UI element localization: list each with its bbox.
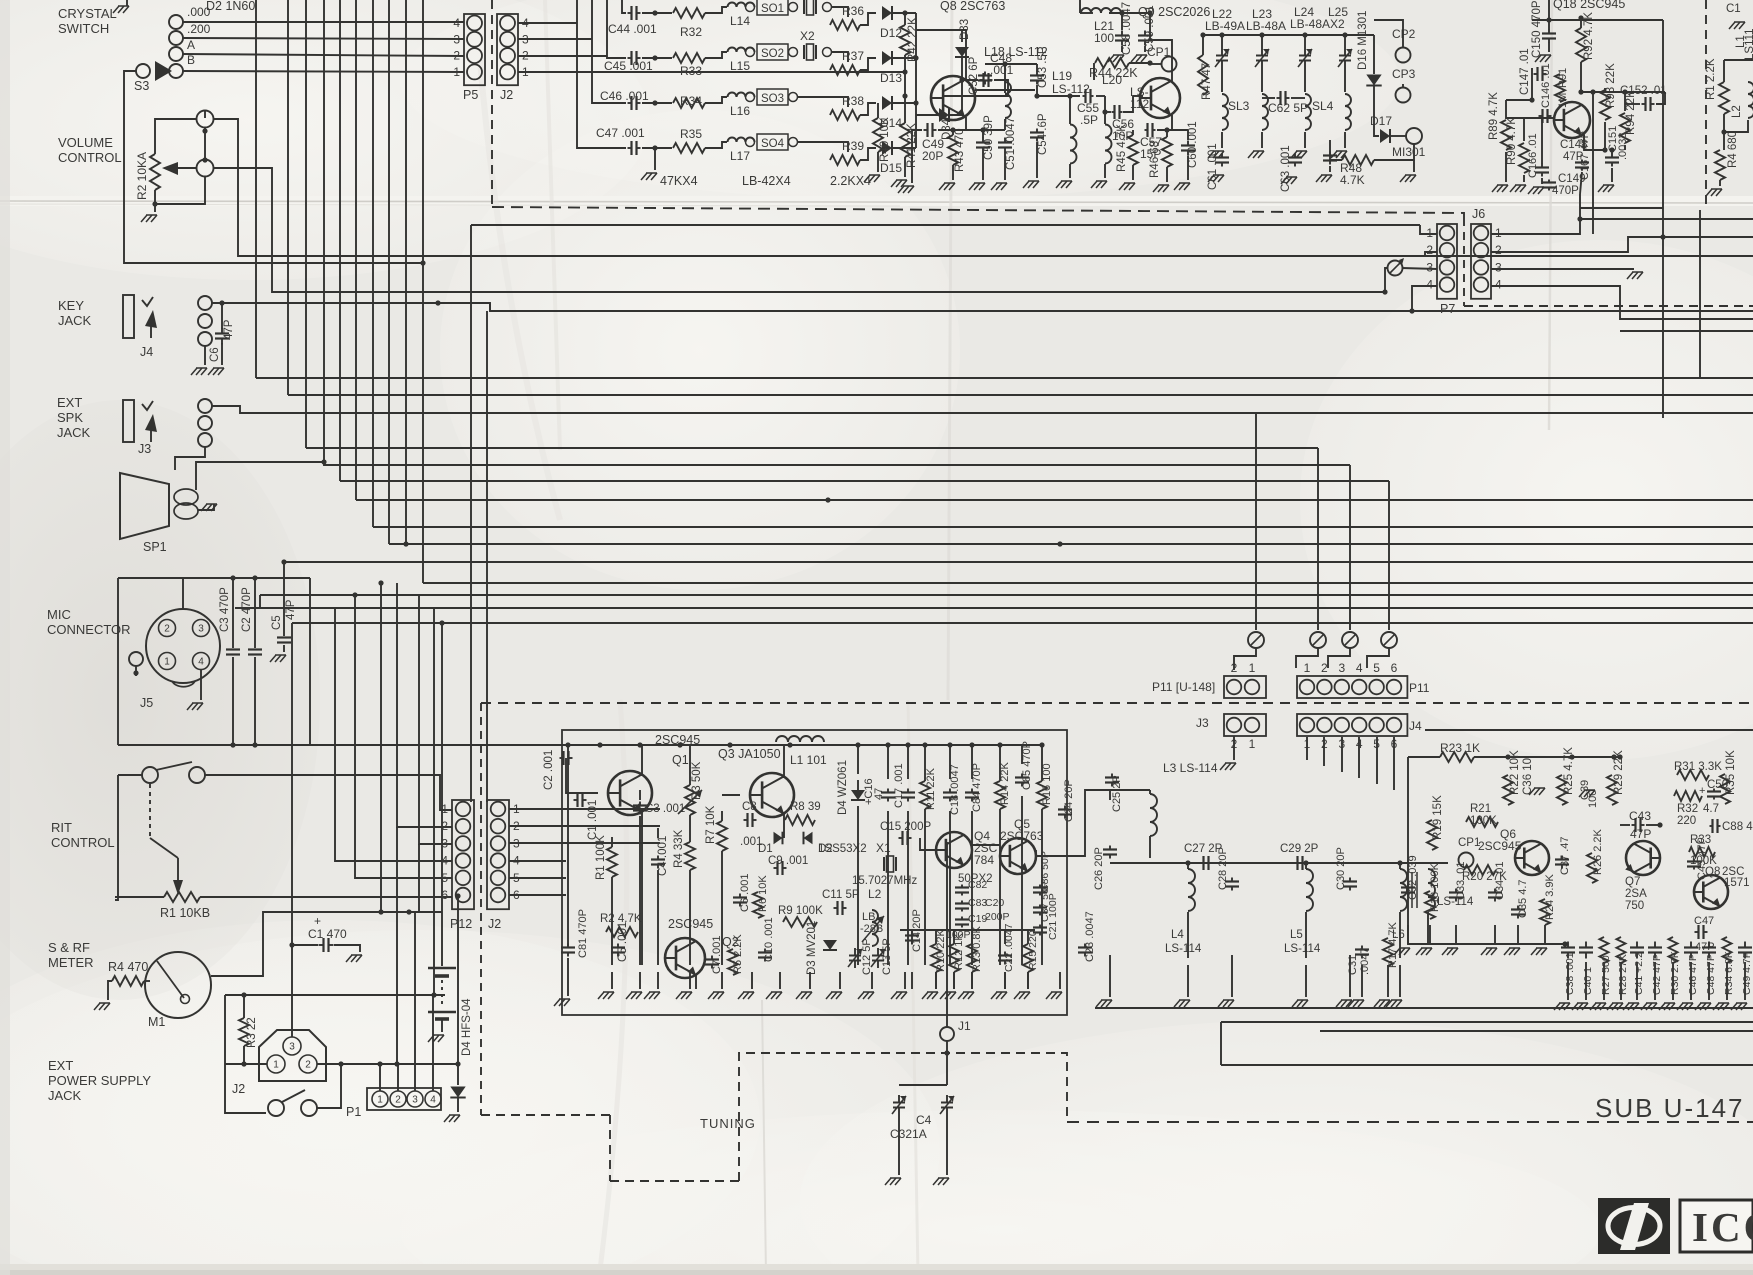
ground resistor R30 2.7K	[1659, 1003, 1675, 1010]
wire R23 left	[1408, 756, 1440, 758]
wire J6 pin3 out	[1491, 268, 1634, 270]
wire audio lower rail2	[1221, 1021, 1753, 1023]
wire battery top	[441, 912, 443, 966]
ground C51	[991, 183, 1007, 190]
wire R2 bottom to ground	[154, 190, 156, 212]
wire Q18 base left	[1506, 99, 1532, 101]
capacitor C8 .001	[744, 813, 757, 827]
wire L22 bottom	[1221, 132, 1223, 148]
svg-text:P5: P5	[463, 88, 478, 102]
wire osc col 972 top	[971, 745, 973, 779]
wire D17 left	[1374, 115, 1379, 136]
resistor R11 22K	[920, 781, 930, 809]
svg-text:470P: 470P	[1552, 185, 1579, 197]
wire J4 pin4 down	[1358, 737, 1360, 778]
battery dashed	[441, 980, 443, 1008]
capacitor C60 .001	[1181, 141, 1195, 156]
inductor L25	[1345, 94, 1351, 130]
svg-text:3: 3	[453, 32, 460, 46]
wire J4 pin1 down	[1306, 737, 1308, 760]
svg-text:6: 6	[441, 888, 448, 902]
wire osc col 888 bottom	[887, 811, 889, 965]
wire osc gnd stem 640	[639, 972, 641, 989]
wire rit feed	[118, 774, 143, 776]
svg-text:D2 1N60: D2 1N60	[206, 0, 255, 13]
svg-text:L4: L4	[1171, 929, 1184, 941]
capacitor C15 200P	[899, 831, 912, 845]
wire left loop	[225, 995, 266, 1113]
wire Q5 out	[1036, 790, 1110, 856]
bus line y481	[340, 480, 1389, 482]
resistor R32 220	[1674, 791, 1702, 801]
wire osc col 1042 bottom	[1041, 809, 1043, 965]
junction mic c2 top	[252, 575, 257, 580]
svg-text:C146 .01: C146 .01	[1540, 63, 1552, 108]
capacitor C49b 4.7P	[1738, 942, 1752, 959]
junction top rail 1000	[997, 742, 1002, 747]
svg-text:C6: C6	[209, 347, 221, 362]
ground resistor R28 27K	[1607, 1003, 1623, 1010]
terminal feed c slash	[1345, 634, 1356, 645]
svg-text:CRYSTAL: CRYSTAL	[58, 6, 117, 21]
wire J2 mid pin6 out	[509, 894, 566, 896]
wire resistor R34 6.8K gnd stem	[1726, 962, 1728, 1000]
wire mic box left	[117, 578, 119, 745]
resistor R92 4.7K	[1576, 28, 1586, 62]
power jack pin 1	[267, 1055, 285, 1073]
junction v355	[352, 592, 357, 597]
svg-text:C47 .001: C47 .001	[596, 126, 645, 140]
svg-text:1: 1	[377, 1095, 383, 1106]
resistor R37	[830, 65, 860, 75]
svg-text:D15: D15	[880, 161, 902, 175]
svg-text:2: 2	[164, 624, 170, 635]
svg-text:R4 470: R4 470	[108, 960, 148, 974]
wire row 1 mid	[642, 12, 672, 14]
bus line y413b	[1255, 413, 1257, 630]
bus vertical x487	[486, 311, 488, 802]
diode D2	[804, 832, 813, 845]
ground filt 1350	[1336, 1000, 1352, 1007]
ground C58	[1108, 55, 1124, 62]
spk jack terminal 1	[198, 399, 212, 413]
wire filter row 3 left	[592, 0, 626, 103]
wire resistor R28 27K gnd stem	[1620, 962, 1622, 1000]
svg-text:C23 .0047: C23 .0047	[1084, 911, 1096, 962]
svg-text:L14: L14	[730, 14, 750, 28]
svg-text:LS111: LS111	[1744, 28, 1753, 60]
bus vertical x389	[388, 0, 390, 544]
wire R46 top	[1166, 130, 1168, 137]
wire Q3 emitter down	[783, 812, 785, 838]
wire osc gnd stem 1060	[1059, 972, 1061, 989]
wire Q4 Q5 link	[972, 844, 1000, 846]
wire rit box	[115, 775, 118, 900]
ground osc 936	[922, 992, 938, 999]
svg-text:R22 10K: R22 10K	[1509, 750, 1521, 795]
capacitor C40 1	[1579, 942, 1593, 959]
resistor R7 10K	[717, 821, 727, 851]
mic keyway	[172, 681, 195, 687]
svg-text:D4 WZ061: D4 WZ061	[837, 760, 849, 815]
ground C1	[346, 955, 362, 962]
svg-text:C25 2P: C25 2P	[1111, 775, 1123, 812]
capacitor C146 .01	[1539, 109, 1552, 123]
bus vertical x471	[470, 225, 472, 802]
wire osc col 888 top	[887, 745, 889, 779]
pad circle SO4 a	[746, 138, 755, 147]
junction switch pin2	[338, 1061, 343, 1066]
wire feed b down	[1296, 648, 1318, 668]
wire osc col 950 bottom	[949, 811, 951, 965]
dashed tuning box	[739, 1053, 1067, 1181]
ground osc 872	[858, 992, 874, 999]
svg-text:C40 1: C40 1	[1582, 967, 1594, 995]
junction bank d	[1342, 32, 1347, 37]
svg-text:3: 3	[1495, 260, 1502, 274]
bus vertical x373	[372, 0, 374, 527]
capacitor C34 .01	[1488, 889, 1502, 902]
svg-text:R28 27K: R28 27K	[1617, 954, 1629, 995]
junction filt y863 L4	[1185, 860, 1190, 865]
svg-text:C17 .001: C17 .001	[893, 763, 905, 808]
wire S4 stub	[126, 0, 128, 6]
capacitor C43 47P	[1632, 818, 1645, 832]
junction top rail 640	[637, 742, 642, 747]
ground filt 1110	[1096, 1000, 1112, 1007]
svg-text:C38 .001: C38 .001	[1564, 952, 1576, 995]
resistor R24 3.9K	[1540, 899, 1550, 925]
svg-text:C1: C1	[1726, 3, 1741, 15]
wire row 4 to diode	[860, 148, 876, 160]
diode D4 HFS-04	[450, 1087, 465, 1098]
wire osc left col 722 b	[721, 851, 723, 965]
junction key C6	[219, 300, 224, 305]
bus line y225 elbow	[1420, 225, 1437, 234]
wire Q18 vcc	[1532, 19, 1663, 21]
svg-text:L2: L2	[868, 887, 882, 901]
svg-text:3: 3	[289, 1042, 295, 1053]
capacitor C51 .0047	[998, 138, 1012, 153]
junction top rail 600	[597, 742, 602, 747]
wire R46 gnd	[1166, 167, 1168, 182]
capacitor C50 39P	[976, 138, 990, 153]
transistor Q3 JA1050	[750, 773, 794, 817]
wire C54 bottom	[1036, 142, 1038, 178]
ground R4	[94, 1003, 110, 1010]
svg-text:C37 .47: C37 .47	[1559, 836, 1571, 875]
svg-text:2: 2	[1495, 243, 1502, 257]
svg-text:Q1: Q1	[672, 753, 689, 767]
capacitor C2 .001	[560, 751, 573, 765]
wire meter out	[211, 912, 442, 976]
svg-text:47P: 47P	[223, 319, 235, 340]
resistor R27 500	[1600, 937, 1609, 963]
wire Q8 coll to tank	[975, 89, 1035, 91]
capacitor C3 .001	[633, 802, 647, 815]
svg-text:LS-114: LS-114	[1284, 943, 1321, 955]
svg-text:SUB U-147: SUB U-147	[1595, 1093, 1745, 1123]
resistor R16 100	[1037, 781, 1047, 809]
capacitor C84 470P	[965, 789, 979, 802]
junction top rail 908	[905, 742, 910, 747]
rit switch pole	[142, 767, 158, 783]
switch S3 wiper arrow	[155, 61, 172, 81]
svg-text:R92 4.7K: R92 4.7K	[1583, 12, 1595, 60]
wire resistor R27 500 gnd stem	[1603, 962, 1605, 1000]
capacitor C151 .0033	[1605, 154, 1619, 167]
rit dashed link	[149, 784, 151, 838]
wire C58 gnd	[1121, 46, 1123, 52]
ground R4 680	[1706, 189, 1722, 196]
svg-text:1: 1	[453, 65, 460, 79]
wire volume wiper right to bus v272	[213, 168, 1385, 292]
wire osc gnd stem 840	[839, 972, 841, 989]
junction mic C81	[565, 742, 570, 747]
wire row 1 to diode	[860, 13, 876, 25]
bus line y311 jog	[489, 303, 491, 311]
capacitor C37 .47	[1555, 856, 1569, 869]
svg-text:C45 .001: C45 .001	[604, 59, 653, 73]
dashed board edge x1464	[1463, 218, 1465, 306]
bus line y562	[284, 561, 1753, 563]
svg-text:SWITCH: SWITCH	[58, 21, 109, 36]
trimmer capacitor C4b	[940, 1095, 954, 1115]
wire row 1 diode out	[892, 12, 916, 14]
wire osc gnd stem 1028	[1027, 972, 1029, 989]
capacitor C24 20P	[1058, 806, 1072, 819]
trimmer capacitor L22t	[1215, 48, 1229, 68]
transistor Q8 2SC763	[931, 76, 975, 120]
wire bus v324 to spk line	[324, 0, 1350, 465]
wire capacitor C40 1 gnd stem	[1585, 962, 1587, 1000]
svg-text:4: 4	[198, 657, 204, 668]
wire T stem	[1427, 912, 1429, 944]
wire trim b gnd	[946, 1115, 948, 1175]
ground L25	[1331, 151, 1347, 158]
connector P5	[453, 14, 485, 85]
bus line y225	[471, 224, 1420, 226]
resistor R38	[830, 110, 860, 120]
capacitor C38 .001	[1561, 942, 1575, 959]
ground L19	[1056, 181, 1072, 188]
capacitor C6 47P	[215, 328, 229, 345]
wire Q8 emitter	[965, 117, 967, 130]
svg-text:R1 100K: R1 100K	[595, 835, 607, 880]
resistor R23 1K	[1440, 752, 1474, 762]
wire Q9 emitter bus	[1157, 129, 1188, 131]
junction L19 top	[1067, 93, 1072, 98]
ground audio 1545	[1531, 948, 1547, 955]
wire y995	[225, 994, 445, 996]
capacitor C86 50P	[1033, 885, 1047, 896]
bus lower left v397 ext	[396, 827, 398, 1064]
terminal J1	[940, 1027, 954, 1041]
terminal feed b slash	[1313, 634, 1324, 645]
wire capacitor C38 .001 gnd stem	[1567, 962, 1569, 1000]
resistor R22 10K	[1503, 775, 1513, 805]
wire audio mid rail b	[1408, 943, 1565, 945]
resistor R1 2.2K	[1719, 82, 1729, 114]
inductor L5 LS-114	[1306, 869, 1313, 911]
ground capacitor C42 47P	[1641, 1003, 1657, 1010]
terminal feed d	[1381, 632, 1397, 648]
capacitor C59 .001	[1138, 31, 1152, 46]
svg-text:2: 2	[453, 49, 460, 63]
power switch lever	[282, 1090, 305, 1102]
wire L20 top	[1104, 96, 1106, 124]
wire C1 left	[292, 944, 318, 946]
wire L25 mid	[1344, 68, 1346, 92]
transistor Q8 2SC1571	[1694, 875, 1728, 909]
wire C3 leads	[232, 578, 234, 648]
svg-text:1: 1	[164, 657, 170, 668]
svg-text:JACK: JACK	[48, 1088, 82, 1103]
capacitor C88 470	[1710, 819, 1721, 833]
capacitor C33 .01	[1449, 889, 1463, 902]
wire audio gnd stem 1430	[1429, 925, 1431, 945]
junction Q8 emitter net	[950, 127, 955, 132]
svg-text:R90 4.7K: R90 4.7K	[1506, 117, 1518, 165]
wire filter row 4 left	[577, 0, 626, 148]
resistor R39	[830, 155, 860, 165]
wire osc mid col 936 b	[935, 972, 937, 989]
svg-text:R17 4.7K: R17 4.7K	[1387, 921, 1399, 968]
potentiometer R1 10KB	[164, 892, 200, 902]
oscillator board box	[562, 730, 1067, 1015]
ground R45	[1119, 183, 1135, 190]
wire rit contact out	[205, 775, 452, 810]
svg-text:C166 .01: C166 .01	[1527, 133, 1539, 178]
connector P1 pin3	[407, 1091, 423, 1107]
junction top rail 790	[787, 742, 792, 747]
ground C151	[1598, 185, 1614, 192]
bus rit to P12 pin5	[355, 595, 452, 878]
wire capacitor C48b 47P gnd stem	[1708, 962, 1710, 1000]
svg-text:Q8 2SC763: Q8 2SC763	[940, 0, 1005, 13]
terminal CP1	[1459, 853, 1474, 868]
dashed board edge y306 right	[1464, 305, 1753, 307]
wire Q8 collector	[962, 30, 966, 80]
wire M1301 gnd stem	[1413, 160, 1415, 172]
svg-text:3: 3	[1426, 260, 1433, 274]
capacitor C7 .001	[705, 956, 719, 969]
bus lower left v335	[335, 608, 452, 861]
bus line y395	[288, 394, 1753, 396]
svg-text:CONTROL: CONTROL	[58, 150, 122, 165]
wire R43 bottom	[952, 165, 954, 180]
pad SO3	[757, 89, 788, 105]
wire R92 bottom	[1580, 62, 1582, 92]
svg-text:S3: S3	[134, 79, 149, 93]
wire filter row 1 left	[622, 0, 626, 13]
junction P1 pin1	[377, 1061, 382, 1066]
wire L4 top stem	[1187, 863, 1189, 869]
capacitor C152 .01	[1642, 97, 1655, 111]
junction pin2 D4	[455, 1061, 460, 1066]
svg-text:R5 2.2K: R5 2.2K	[732, 934, 744, 974]
bus vertical x256	[255, 0, 257, 378]
svg-text:-28B: -28B	[860, 923, 883, 935]
dashed tuning box bottom	[610, 1180, 739, 1182]
wire C151 gnd	[1611, 168, 1613, 182]
svg-text:.0047: .0047	[1359, 947, 1371, 975]
ground filt 1188	[1174, 1000, 1190, 1007]
wire mic top loop	[118, 577, 310, 579]
svg-text:R3 50K: R3 50K	[691, 761, 703, 800]
bus vertical x423	[422, 0, 424, 583]
svg-text:A: A	[187, 38, 195, 52]
wire audio gnd stem 1408	[1407, 925, 1409, 945]
wire row 4 mid	[642, 147, 672, 149]
transistor Q2 2SC945	[665, 938, 705, 978]
ground osc 1005	[991, 992, 1007, 999]
resistor R42 22K	[900, 25, 910, 55]
pad circle SO3 a	[746, 93, 755, 102]
svg-text:2: 2	[441, 819, 448, 833]
junction R44 CP1	[1147, 60, 1152, 65]
wire C5 bottom	[283, 645, 285, 652]
svg-text:D4 HFS-04: D4 HFS-04	[461, 998, 473, 1056]
junction y544	[1057, 541, 1062, 546]
wire L21 to Q9	[1149, 13, 1151, 40]
svg-text:1: 1	[1304, 661, 1311, 675]
svg-text:METER: METER	[48, 955, 94, 970]
resistor R8 39	[785, 815, 815, 825]
junction row 1 a	[652, 10, 657, 15]
svg-text:C54 .6P: C54 .6P	[1037, 113, 1049, 155]
svg-text:C36 10: C36 10	[1522, 758, 1534, 795]
capacitor C49 20P	[924, 123, 937, 137]
ground R41	[891, 180, 907, 187]
diode D13	[882, 51, 892, 65]
svg-text:C147 .01: C147 .01	[1519, 48, 1531, 95]
ground J3	[1220, 763, 1236, 770]
wire osc gnd stem 690	[689, 972, 691, 989]
inductor L16	[728, 93, 755, 98]
wire R92 top	[1580, 18, 1582, 28]
svg-text:LB-49A: LB-49A	[1205, 19, 1245, 33]
wire R94 C152 link	[1581, 91, 1665, 93]
terminal feed P7 arrowhead	[1399, 258, 1404, 265]
transistor Q18	[1554, 102, 1590, 138]
spk jack tip lever	[142, 401, 153, 410]
svg-text:R37: R37	[842, 49, 864, 63]
resistor R6 10K	[753, 892, 763, 918]
wire L5 top stem	[1305, 863, 1307, 869]
svg-text:R21: R21	[1470, 803, 1491, 815]
ground osc 780	[766, 992, 782, 999]
svg-text:750: 750	[1625, 900, 1644, 912]
spk jack body	[123, 400, 134, 442]
wire R4 to meter	[144, 980, 150, 982]
svg-text:R24 3.9K: R24 3.9K	[1544, 873, 1556, 920]
wire L23 bottom	[1261, 132, 1263, 148]
wire R45 top	[1132, 130, 1134, 135]
wire osc mid col 1028 b	[1027, 972, 1029, 989]
wire Q18 emitter net	[1584, 135, 1605, 150]
svg-text:C1 .001: C1 .001	[587, 800, 599, 840]
svg-text:4: 4	[441, 854, 448, 868]
svg-text:S & RF: S & RF	[48, 940, 90, 955]
diode D4 WZ061	[851, 790, 865, 800]
ground L20	[1091, 181, 1107, 188]
svg-text:B: B	[187, 53, 195, 67]
wire filt top	[1109, 790, 1111, 800]
svg-text:P1: P1	[346, 1105, 361, 1119]
resistor R3 22	[239, 1018, 249, 1046]
junction pin1 R3	[241, 1061, 246, 1066]
